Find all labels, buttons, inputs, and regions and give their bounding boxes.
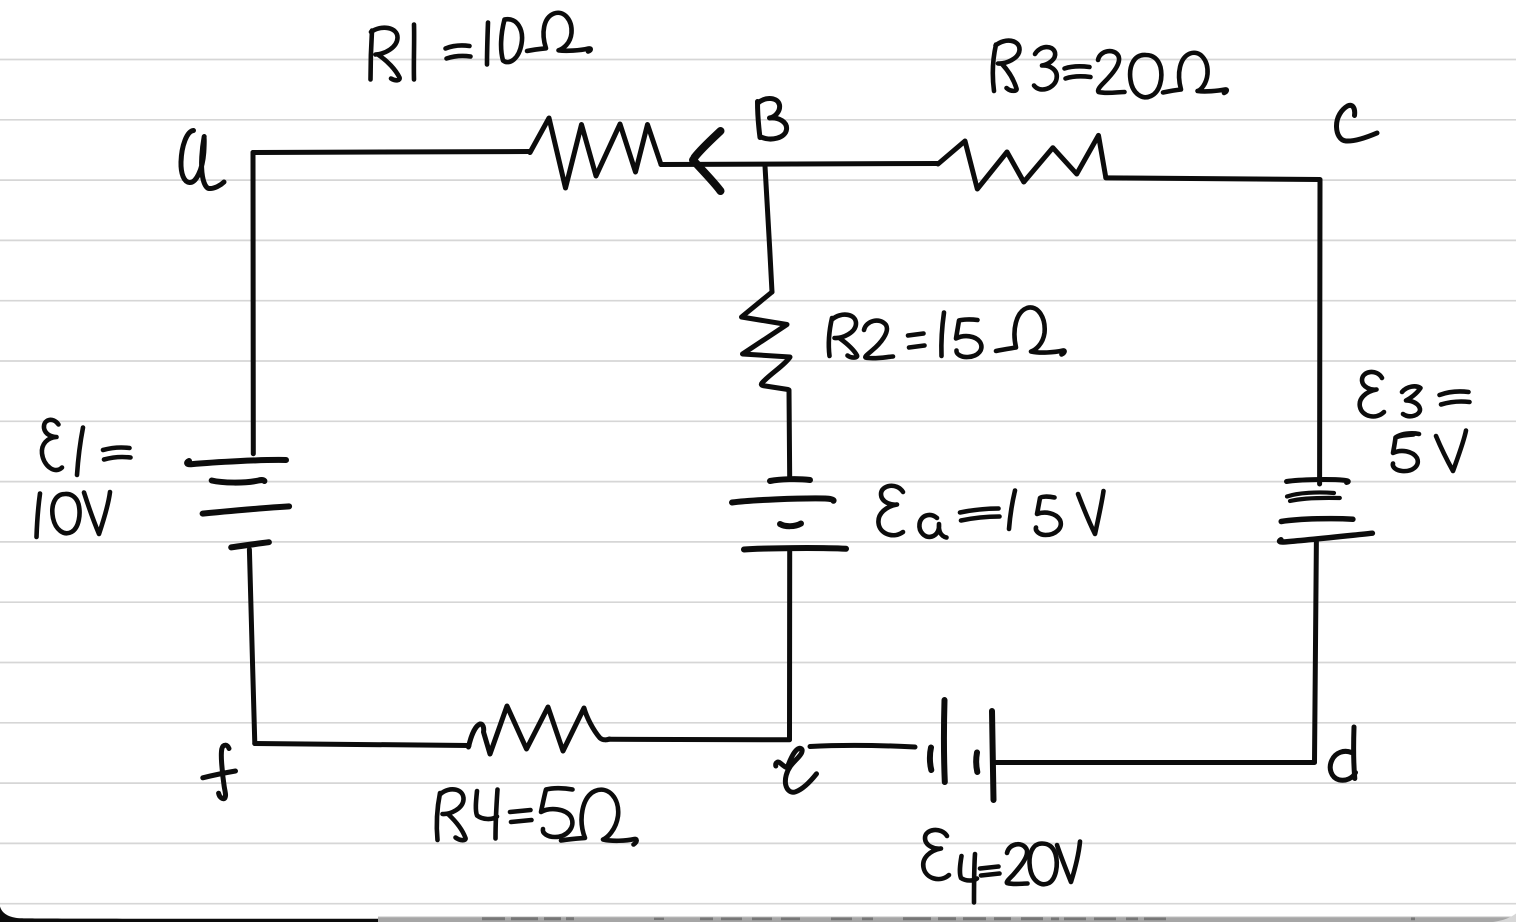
node c <box>1337 105 1378 141</box>
wire R1 to B to R3 (top middle) <box>661 164 938 165</box>
current arrow at B <box>693 131 721 191</box>
resistor R3 <box>938 135 1106 189</box>
label E1 = 10V <box>42 420 62 470</box>
label E3 = 5V <box>1360 372 1384 416</box>
wire R3 to c (top-right) <box>1106 178 1320 180</box>
wire R2 to E2 <box>787 390 793 479</box>
node e <box>776 748 817 792</box>
wire c to E3 (right vertical) <box>1317 180 1322 484</box>
wire E3 to d (right vertical lower) <box>1315 539 1317 762</box>
wire e to E4 <box>810 745 915 747</box>
node d <box>1330 727 1355 780</box>
wire E1 to f (left vertical lower) <box>249 550 254 744</box>
node B <box>758 98 787 138</box>
resistor R2 <box>742 292 791 390</box>
wire R4 to e junction <box>610 737 790 743</box>
wire a to E1 (left vertical) <box>251 153 256 454</box>
battery E3 <box>1280 480 1373 542</box>
gray strip UI artifact bottom-right <box>378 914 1516 922</box>
node f <box>203 745 236 799</box>
node a <box>181 131 224 189</box>
label E2 = 15V <box>878 486 903 535</box>
label R4 = 5 ohm <box>437 789 466 840</box>
wire E2 to e junction (middle vertical lower) <box>787 551 792 740</box>
battery E4 <box>930 700 994 800</box>
resistor R4 <box>469 706 610 754</box>
wire f to R4 (bottom-left horizontal) <box>255 744 469 746</box>
wire E4 to d (bottom-right horizontal) <box>994 760 1315 765</box>
battery E2 <box>732 479 846 549</box>
resistor R1 <box>530 118 661 188</box>
black bar UI artifact bottom-left <box>0 907 378 922</box>
battery E1 <box>187 460 289 547</box>
wire B to R2 <box>765 166 772 292</box>
label E4 = 20V <box>923 830 949 879</box>
label R3 = 20 ohm <box>993 41 1020 91</box>
label R1 = 10 ohm <box>371 28 400 81</box>
wire a to R1 (top-left horizontal) <box>253 152 530 153</box>
label R2 = 15 ohm <box>829 315 857 358</box>
